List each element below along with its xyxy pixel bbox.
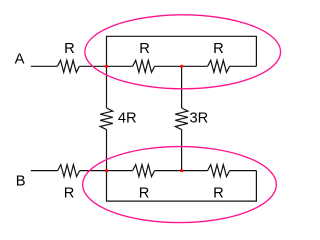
resistor R (series from B) xyxy=(58,165,80,177)
wire top-left segment xyxy=(107,65,133,67)
svg-text:3R: 3R xyxy=(190,111,209,127)
top shorting loop xyxy=(107,36,257,66)
svg-text:R: R xyxy=(213,41,224,57)
svg-text:4R: 4R xyxy=(118,111,137,127)
wire 3R upper lead xyxy=(181,66,183,108)
svg-text:R: R xyxy=(139,41,150,57)
wire 4R upper lead xyxy=(106,66,108,108)
resistor R (top left) xyxy=(133,60,155,72)
svg-text:A: A xyxy=(15,52,25,68)
junction dot bottom-mid xyxy=(180,169,183,172)
wire to top-right corner xyxy=(230,65,257,67)
resistor R (series from A) xyxy=(57,60,79,72)
resistor R (top right) xyxy=(208,60,230,72)
svg-text:R: R xyxy=(213,185,224,201)
resistor R (bottom left) xyxy=(133,165,155,177)
wire top-mid segment xyxy=(155,65,208,67)
junction dot bottom-left xyxy=(105,169,108,172)
resistor 4R xyxy=(100,108,113,130)
resistor 3R xyxy=(175,108,188,130)
svg-text:R: R xyxy=(64,185,75,201)
wire 3R lower lead xyxy=(181,130,183,171)
svg-text:R: R xyxy=(64,41,75,57)
junction dot top-mid xyxy=(180,65,183,68)
top highlight ellipse xyxy=(85,15,281,89)
wire A to left junction xyxy=(80,65,107,67)
bottom highlight ellipse xyxy=(83,147,277,223)
wire B to left junction xyxy=(80,170,107,172)
svg-text:B: B xyxy=(16,173,26,189)
resistor R (bottom right) xyxy=(208,165,230,177)
wire to bottom-right corner xyxy=(230,170,257,172)
wire bottom-mid segment xyxy=(155,170,208,172)
junction dot top-left xyxy=(105,65,108,68)
wire bottom-left segment xyxy=(107,170,133,172)
wire 4R lower lead xyxy=(106,130,108,171)
svg-text:R: R xyxy=(139,185,150,201)
bottom shorting loop xyxy=(107,171,257,202)
wire A lead xyxy=(31,65,58,67)
wire B lead xyxy=(31,170,58,172)
